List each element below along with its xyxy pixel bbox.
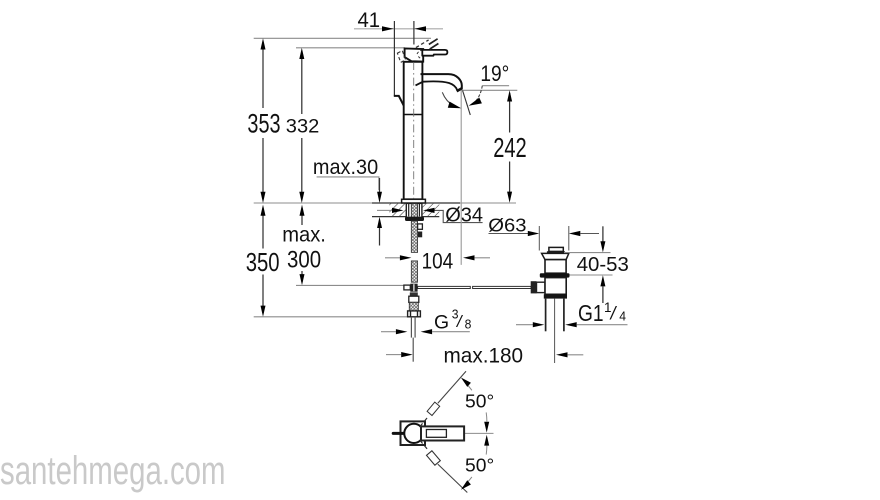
svg-text:300: 300 xyxy=(287,246,321,273)
lower 50deg arc arrowheads xyxy=(484,435,489,446)
dimension max.30 lower arrow xyxy=(377,217,382,228)
extension line spout tip vertical xyxy=(460,90,462,265)
faucet body column xyxy=(404,62,423,200)
deck slab hatch left xyxy=(389,204,406,216)
spout tip face xyxy=(457,88,463,91)
faucet centreline xyxy=(413,62,415,199)
leader max.30 xyxy=(317,177,379,190)
svg-text:50°: 50° xyxy=(465,455,494,475)
svg-text:19°: 19° xyxy=(480,62,509,87)
lower 50deg dashed lever line xyxy=(420,440,428,450)
lower lever ghost rectangle xyxy=(427,451,441,465)
handle ghost outline left xyxy=(397,51,405,63)
lever bar xyxy=(422,50,447,56)
G3/8 connector nut xyxy=(408,311,421,317)
drain fitting block on rod xyxy=(531,281,537,293)
dimension 104 xyxy=(385,257,400,259)
extension line cap-top level (332 ref) xyxy=(296,47,405,49)
drain bottom nut xyxy=(544,294,567,298)
dimension O34 arrows at shank xyxy=(377,209,392,211)
lever raised-position slash marks xyxy=(429,39,438,45)
G1 1/4 dimension arrows xyxy=(516,324,533,326)
svg-text:G: G xyxy=(434,311,449,333)
plan view centreline xyxy=(414,432,494,434)
drain top cap xyxy=(549,247,563,251)
lever ghost dashes xyxy=(416,40,429,48)
upper 50deg arc xyxy=(467,384,487,421)
O63 right arrow xyxy=(569,231,581,236)
G3/8 adapter stack xyxy=(410,292,418,296)
plan view lever inner xyxy=(426,430,446,438)
drain body lower xyxy=(545,278,566,295)
drain o-ring xyxy=(540,273,570,277)
drain flange xyxy=(542,253,569,259)
plan view lever outer xyxy=(421,426,464,440)
svg-text:max.180: max.180 xyxy=(444,344,524,367)
dimension 242 line xyxy=(509,93,511,133)
deck slab outline xyxy=(372,202,460,204)
svg-text:353: 353 xyxy=(247,110,280,140)
faucet spout xyxy=(421,74,462,89)
water stream line (19 deg) xyxy=(463,91,471,115)
cartridge hidden dashes xyxy=(417,50,422,54)
G3/8 dimension arrows xyxy=(381,331,396,333)
extension line faucet left (41) xyxy=(393,21,395,96)
deck top line xyxy=(254,202,516,204)
19 deg left arc arrow xyxy=(442,92,454,106)
drain body upper xyxy=(545,260,566,274)
upper 50deg line xyxy=(438,371,466,403)
dimension 41 xyxy=(354,28,443,30)
upper lever ghost rectangle xyxy=(427,402,440,415)
extension line pull-rod level (max.300 ref) xyxy=(296,284,404,286)
svg-text:50°: 50° xyxy=(465,391,494,411)
svg-text:Ø34: Ø34 xyxy=(445,205,483,227)
dimension 350 line xyxy=(262,208,264,249)
threaded rod lower xyxy=(411,261,417,282)
label G3/8 xyxy=(434,307,471,333)
label G1 1/4 xyxy=(578,298,626,326)
plan view square base xyxy=(401,421,426,445)
drain side port xyxy=(537,282,546,292)
svg-text:max.: max. xyxy=(282,223,326,246)
escutcheon plate xyxy=(402,199,426,203)
faucet mounting shank xyxy=(406,203,422,219)
svg-text:max.30: max.30 xyxy=(313,155,378,179)
threaded rod upper xyxy=(411,221,417,252)
lower 50deg arc xyxy=(467,446,487,483)
svg-text:8: 8 xyxy=(465,317,472,331)
rod clamp pieces xyxy=(418,224,423,229)
mounting nut xyxy=(405,217,424,221)
pull rod horizontal left segment xyxy=(418,286,471,288)
faucet body joint line xyxy=(404,114,423,116)
handle cap xyxy=(405,48,424,61)
dimension 332 line xyxy=(301,51,303,114)
O63 extension lines xyxy=(538,226,540,251)
faucet base skirt xyxy=(394,96,404,106)
upper 50deg dashed lever line xyxy=(420,416,428,426)
drain tailpipe xyxy=(545,299,547,332)
leader O63 with arrow xyxy=(489,233,530,235)
40-53 extension lines xyxy=(564,252,611,254)
svg-text:/: / xyxy=(609,304,618,324)
lower 50deg line xyxy=(438,464,468,492)
extension line spout level xyxy=(461,89,517,91)
watermark santehmega.com xyxy=(0,449,226,494)
svg-text:G1: G1 xyxy=(578,300,604,326)
svg-text:4: 4 xyxy=(619,309,626,323)
extension line faucet centre (41) xyxy=(413,21,415,45)
svg-text:242: 242 xyxy=(493,133,527,164)
svg-text:332: 332 xyxy=(286,116,319,138)
dimension max.300 line xyxy=(301,208,303,225)
svg-text:41: 41 xyxy=(358,9,381,33)
svg-text:40-53: 40-53 xyxy=(577,253,629,276)
deck slab hatch right xyxy=(422,204,439,216)
extension line hose-end level (350 ref) xyxy=(254,316,421,318)
svg-text:104: 104 xyxy=(422,249,454,274)
svg-text:/: / xyxy=(456,312,464,331)
max.180 dimension xyxy=(386,354,401,356)
leader O34 xyxy=(435,210,483,222)
19 deg leader and right arc arrow xyxy=(482,85,509,87)
flexible hoses xyxy=(410,317,412,338)
upper 50deg arc arrowheads xyxy=(461,378,471,387)
plan view handle dome circle xyxy=(404,424,423,443)
svg-text:350: 350 xyxy=(246,248,280,277)
plan view spout stub xyxy=(393,432,403,435)
40-53 dimension arrows xyxy=(602,226,604,241)
pull rod horizontal right segment xyxy=(473,286,531,288)
dimension 353 line xyxy=(262,42,264,108)
pull rod cross fitting xyxy=(404,285,410,290)
extension line lever-top level (353 ref) xyxy=(254,37,431,39)
